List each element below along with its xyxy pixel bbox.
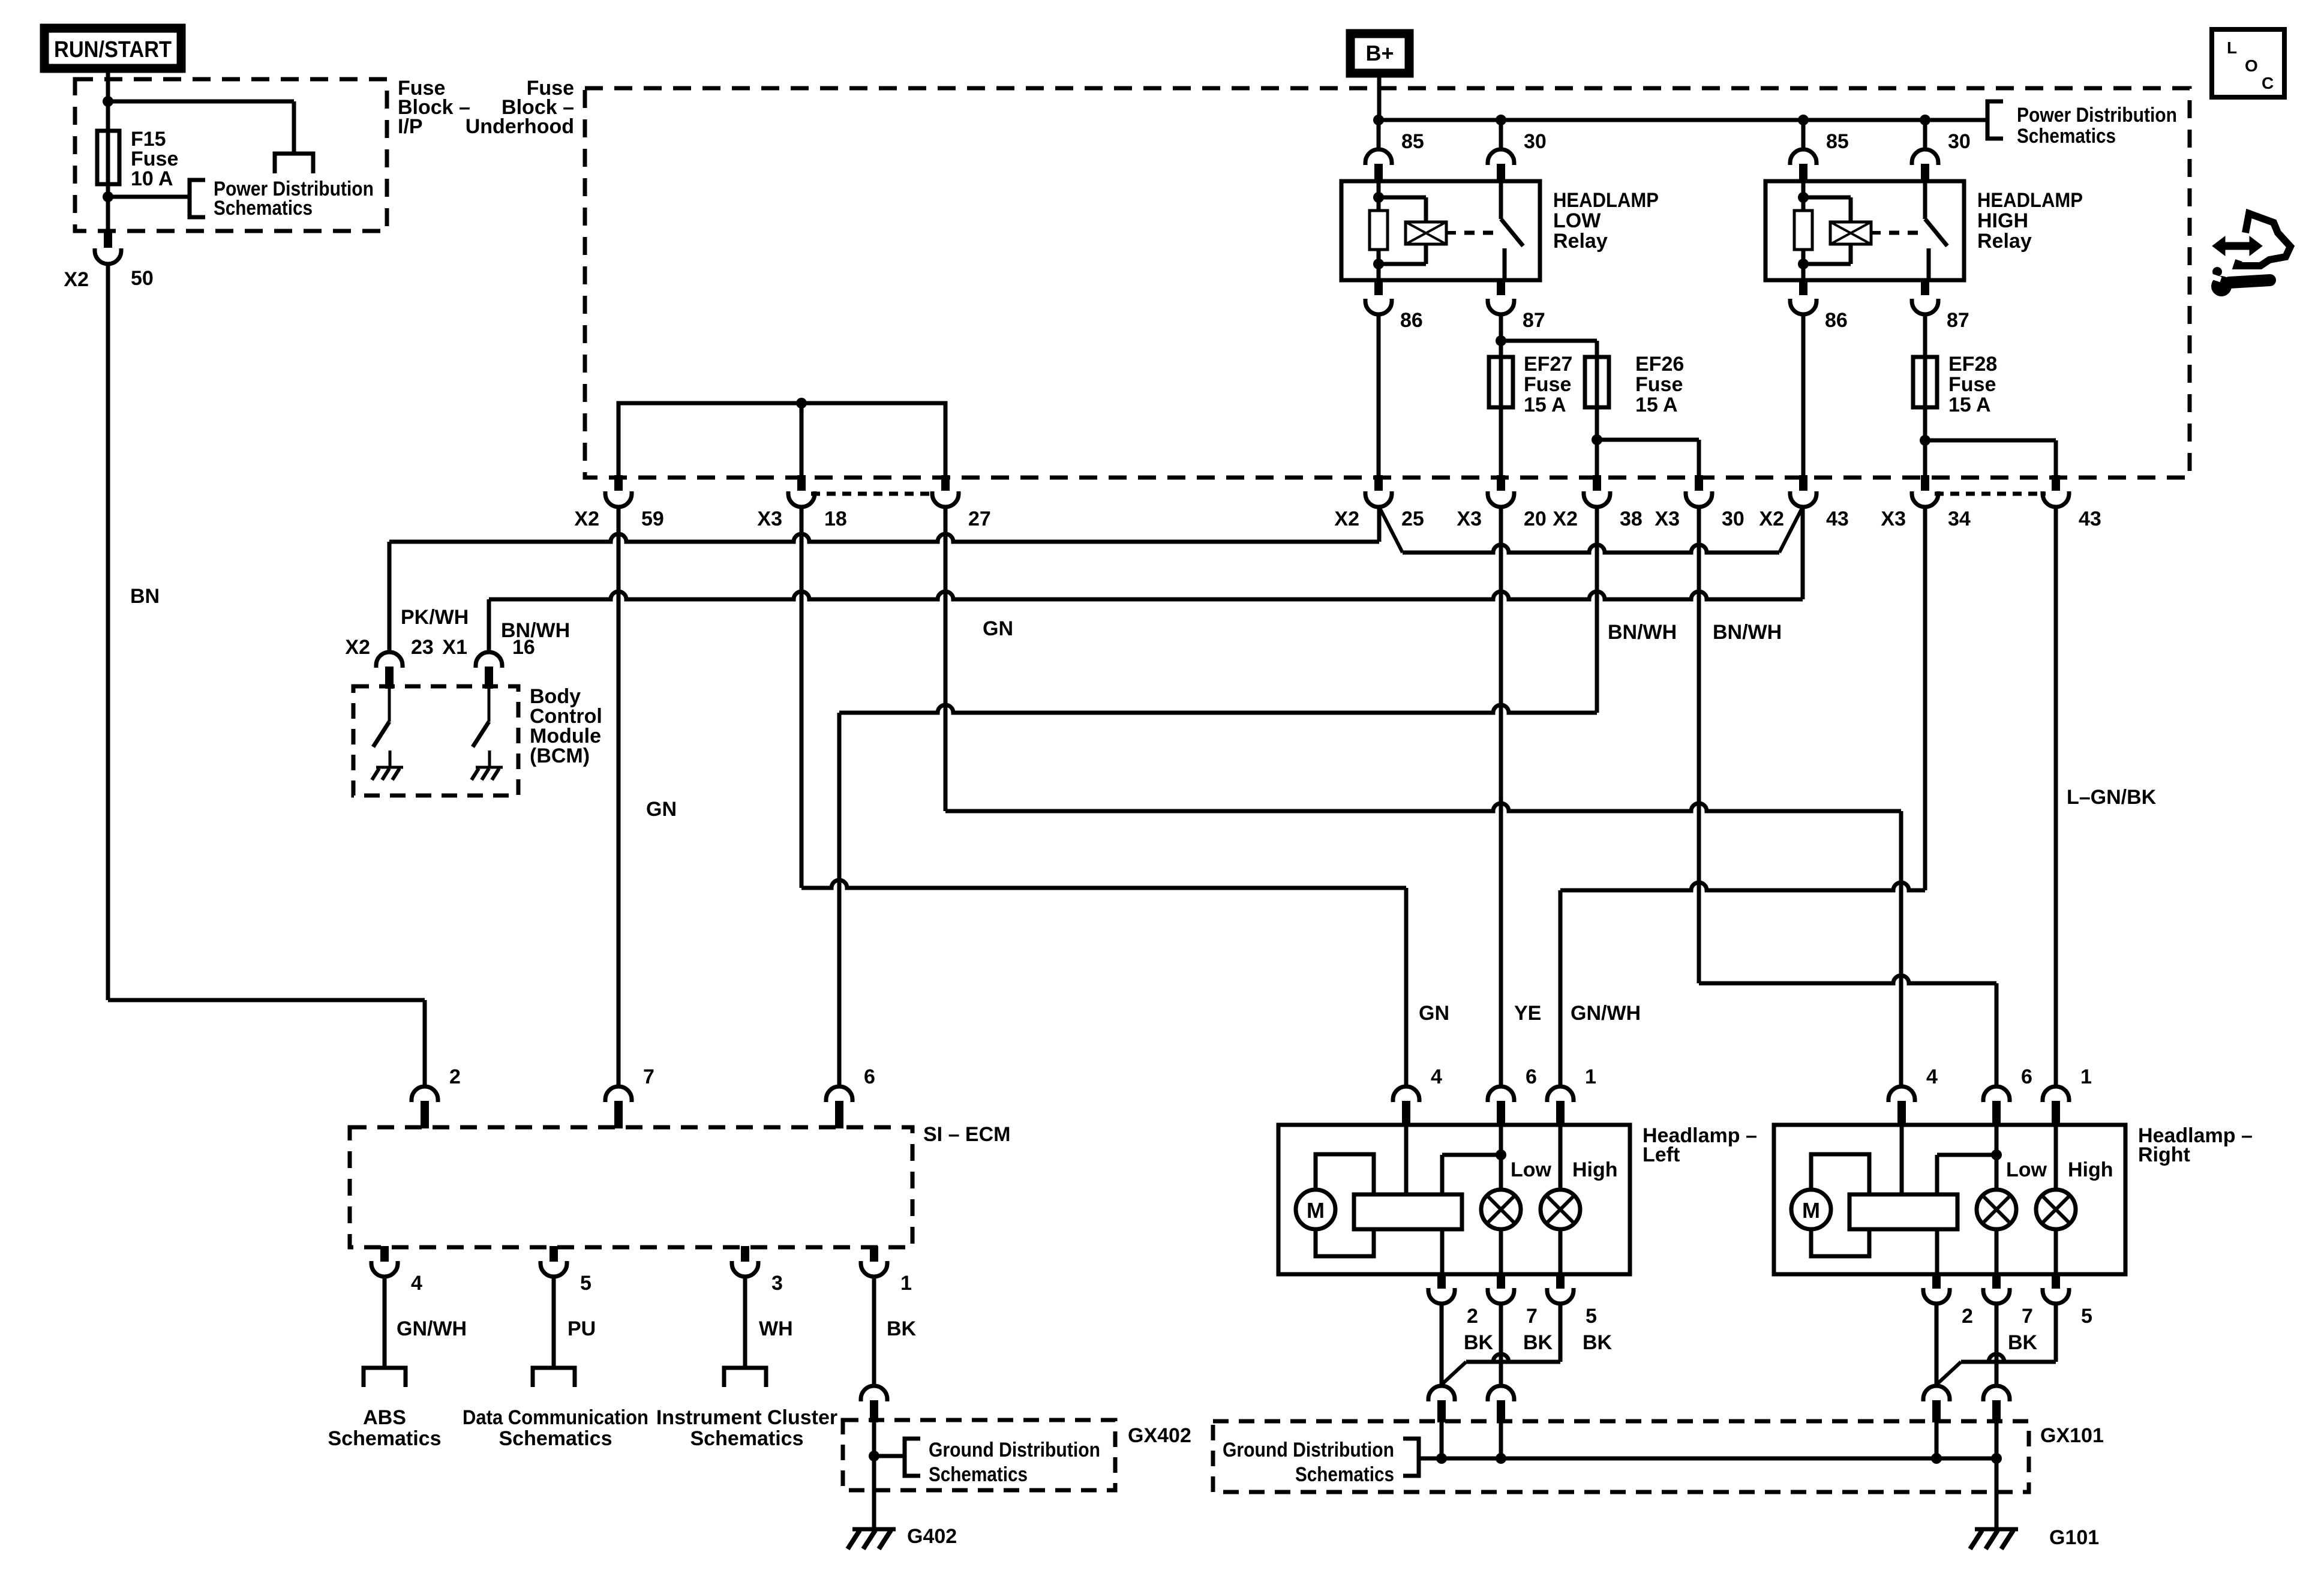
wire BN/WH BCM X1-16 to relay HIGH coil X2-43 bbox=[487, 599, 491, 653]
headlamp Left top pin 4 bbox=[1393, 1086, 1419, 1102]
BCM internal ground bbox=[376, 766, 403, 769]
svg-text:4: 4 bbox=[411, 1272, 422, 1295]
svg-text:Low: Low bbox=[2006, 1158, 2047, 1181]
svg-text:L–GN/BK: L–GN/BK bbox=[2067, 786, 2157, 809]
svg-text:RUN/START: RUN/START bbox=[54, 37, 172, 62]
headlamp Left bottom pin 2 bbox=[1437, 1273, 1446, 1289]
wire GN/WH to ABS bbox=[383, 1277, 387, 1368]
relay coil bbox=[1803, 196, 1851, 200]
svg-text:50: 50 bbox=[131, 267, 154, 290]
relay pin 30 connector bbox=[1499, 120, 1503, 149]
RUN/START power feed box bbox=[44, 28, 181, 68]
wire EF26 output bbox=[1595, 407, 1599, 478]
headlamp Right pin4 wire bbox=[1900, 1126, 1904, 1194]
service tools icon bbox=[2225, 242, 2251, 250]
headlamp Right bottom pin 5 bbox=[2052, 1273, 2060, 1289]
svg-text:GN: GN bbox=[646, 798, 677, 821]
connector X3 pin 20 bbox=[1497, 475, 1505, 491]
svg-text:YE: YE bbox=[1514, 1002, 1541, 1025]
wire RUN/START to F15 bbox=[106, 70, 110, 131]
svg-text:Ground Distribution: Ground Distribution bbox=[1223, 1439, 1394, 1461]
connector inline ground 2/5 bbox=[1923, 1386, 1950, 1401]
power distribution schematics bracket bbox=[190, 180, 205, 217]
svg-text:20: 20 bbox=[1524, 508, 1547, 530]
svg-text:Right: Right bbox=[2138, 1143, 2190, 1166]
ECM bottom pin 4 bbox=[380, 1246, 389, 1262]
svg-text:15 A: 15 A bbox=[1524, 394, 1566, 416]
ECM bottom pin 1 bbox=[870, 1246, 878, 1262]
headlamp Right leveling motor bbox=[1791, 1190, 1831, 1229]
svg-text:7: 7 bbox=[643, 1065, 654, 1088]
svg-text:WH: WH bbox=[759, 1317, 793, 1340]
connector inline ground 7 bbox=[1488, 1386, 1514, 1401]
relay coil-switch link bbox=[1446, 231, 1456, 235]
svg-text:B+: B+ bbox=[1365, 41, 1394, 65]
svg-text:Left: Left bbox=[1643, 1143, 1680, 1166]
svg-text:GN: GN bbox=[1419, 1002, 1449, 1025]
connector X3 pin 18 bbox=[797, 475, 806, 491]
svg-text:30: 30 bbox=[1722, 508, 1744, 530]
svg-text:PU: PU bbox=[568, 1317, 596, 1340]
B+ bus bbox=[1379, 118, 1987, 122]
svg-text:Ground Distribution: Ground Distribution bbox=[929, 1439, 1100, 1461]
wire coil jumper X2-25 to X2-43 bbox=[1379, 507, 1403, 553]
wire pin 2 ground bbox=[1440, 1304, 1444, 1386]
svg-text:87: 87 bbox=[1947, 309, 1969, 332]
wire branch to power distribution tap bbox=[108, 100, 294, 104]
svg-text:2: 2 bbox=[1962, 1305, 1973, 1328]
wire HIGH 87 to EF28 bbox=[1923, 314, 1927, 357]
headlamp Left leveling module bbox=[1354, 1194, 1462, 1229]
svg-text:7: 7 bbox=[2022, 1305, 2033, 1328]
headlamp Left high bulb bbox=[1559, 1126, 1563, 1190]
svg-text:O: O bbox=[2245, 56, 2258, 75]
svg-text:Schematics: Schematics bbox=[499, 1427, 612, 1450]
fuse block underhood dashed box bbox=[585, 88, 2190, 478]
connector X2 pin 59 bbox=[614, 475, 623, 491]
svg-text:30: 30 bbox=[1948, 130, 1971, 153]
headlamp Left low feed junction bbox=[1499, 1126, 1503, 1190]
svg-text:85: 85 bbox=[1401, 130, 1424, 153]
svg-text:86: 86 bbox=[1400, 309, 1423, 332]
wire YE X3-20 to headlamp left pin 6 bbox=[1499, 507, 1503, 1086]
power distribution schematics bracket right bbox=[1987, 101, 2003, 139]
node junction top bbox=[103, 96, 113, 107]
wire BK inside GX402 bbox=[872, 1422, 876, 1528]
wire to EF26 bbox=[1501, 339, 1597, 343]
svg-text:M: M bbox=[1307, 1198, 1325, 1223]
relay pin 87 connector bbox=[1497, 280, 1505, 295]
relay pin 30 connector bbox=[1923, 120, 1927, 149]
wire PK/WH BCM X2-23 to relay LOW coil X2-25 bbox=[388, 542, 392, 653]
svg-text:30: 30 bbox=[1524, 130, 1547, 153]
headlamp Left pin4 wire bbox=[1404, 1126, 1409, 1194]
connector inline ground 7 bbox=[1983, 1386, 2010, 1401]
svg-text:BN/WH: BN/WH bbox=[1608, 621, 1677, 644]
underhood internal bus bbox=[618, 403, 945, 476]
wire BN to ECM pin 2 bbox=[108, 998, 425, 1002]
fuse block I/P dashed box bbox=[75, 79, 387, 231]
svg-text:1: 1 bbox=[2080, 1065, 2092, 1088]
node GX402 junction bbox=[869, 1451, 879, 1461]
wire PU to data communication bbox=[552, 1277, 556, 1368]
relay coil-switch link bbox=[1871, 231, 1881, 235]
svg-text:G402: G402 bbox=[907, 1525, 957, 1548]
connector body dotted notch left bbox=[811, 492, 936, 496]
connector X2 pin 38 bbox=[1593, 475, 1601, 491]
relay switch bbox=[1499, 181, 1503, 219]
svg-text:Schematics: Schematics bbox=[690, 1427, 804, 1450]
svg-text:X2: X2 bbox=[1553, 508, 1578, 530]
svg-text:LOW: LOW bbox=[1553, 209, 1601, 232]
wire to power distribution schematics bbox=[108, 195, 190, 199]
connector inline ground 2/5 bbox=[1428, 1386, 1455, 1401]
svg-text:3: 3 bbox=[771, 1272, 783, 1295]
headlamp Right top pin 6 bbox=[1983, 1086, 2010, 1102]
data communication schematics tap bbox=[533, 1368, 575, 1387]
fuse EF26 bbox=[1585, 357, 1609, 407]
headlamp Left bottom pin 7 bbox=[1497, 1273, 1505, 1289]
svg-text:27: 27 bbox=[968, 508, 991, 530]
svg-text:High: High bbox=[1572, 1158, 1618, 1181]
svg-text:X3: X3 bbox=[1457, 508, 1482, 530]
connector X2 pin 25 bbox=[1374, 475, 1383, 491]
wire pin 7 ground bbox=[1499, 1304, 1503, 1386]
svg-text:Relay: Relay bbox=[1977, 230, 2032, 253]
svg-text:GN: GN bbox=[983, 617, 1013, 640]
ground splice GX402 dashed box bbox=[843, 1420, 1115, 1490]
wire GN pin 27 down bbox=[944, 507, 948, 811]
svg-text:Underhood: Underhood bbox=[466, 115, 574, 138]
svg-text:HEADLAMP: HEADLAMP bbox=[1977, 189, 2083, 212]
svg-text:I/P: I/P bbox=[398, 115, 423, 138]
svg-text:7: 7 bbox=[1526, 1305, 1538, 1328]
svg-text:SI – ECM: SI – ECM bbox=[923, 1123, 1010, 1146]
svg-text:HIGH: HIGH bbox=[1977, 209, 2028, 232]
headlamp Left leveling motor bbox=[1296, 1190, 1335, 1229]
ground G402 bbox=[852, 1527, 896, 1532]
svg-text:Schematics: Schematics bbox=[1295, 1463, 1394, 1486]
connector pin 27 bbox=[941, 475, 950, 491]
BCM driver switch 23 bbox=[388, 689, 391, 722]
BCM connector X2 pin 23 bbox=[376, 652, 403, 668]
wire WH to instrument cluster bbox=[743, 1277, 747, 1368]
relay coil resistor bbox=[1794, 211, 1812, 250]
connector X3 pin 34 bbox=[1921, 475, 1929, 491]
relay pin 87 connector bbox=[1921, 280, 1929, 295]
svg-text:59: 59 bbox=[641, 508, 664, 530]
node EF26 feed junction bbox=[1496, 335, 1506, 346]
wire GN/WH X3-34 to headlamp left pin 1 bbox=[1923, 507, 1927, 890]
BCM driver switch 16 bbox=[488, 689, 491, 722]
svg-text:23: 23 bbox=[411, 636, 434, 659]
svg-text:X3: X3 bbox=[1881, 508, 1906, 530]
ECM bottom pin 5 bbox=[550, 1246, 558, 1262]
connector body dotted notch right bbox=[1935, 492, 2046, 496]
svg-text:ABS: ABS bbox=[363, 1406, 406, 1429]
power distribution tap symbol bbox=[275, 154, 313, 173]
svg-text:5: 5 bbox=[2081, 1305, 2092, 1328]
wire EF28 to pin 43 bbox=[1925, 439, 2056, 443]
headlamp Right low bulb bbox=[1977, 1190, 2016, 1229]
relay box LOW bbox=[1341, 181, 1540, 280]
fuse EF28 bbox=[1913, 357, 1937, 407]
svg-text:10 A: 10 A bbox=[131, 167, 173, 190]
svg-text:EF27: EF27 bbox=[1524, 353, 1572, 376]
ECM top pin 2 bbox=[412, 1086, 438, 1102]
svg-text:6: 6 bbox=[864, 1065, 875, 1088]
svg-text:4: 4 bbox=[1926, 1065, 1938, 1088]
svg-text:High: High bbox=[2068, 1158, 2113, 1181]
wire BN/WH X3-30 to headlamp right pin 6 bbox=[1697, 507, 1701, 983]
headlamp Right bottom pin 2 bbox=[1932, 1273, 1941, 1289]
svg-text:5: 5 bbox=[1586, 1305, 1597, 1328]
headlamp Right top pin 1 bbox=[2043, 1086, 2069, 1102]
svg-text:BN: BN bbox=[130, 585, 160, 608]
svg-text:15 A: 15 A bbox=[1948, 394, 1991, 416]
B+ power feed box bbox=[1350, 34, 1409, 73]
wire GN X3-18 to headlamp left pin 4 bbox=[801, 880, 1406, 888]
relay switch bbox=[1923, 181, 1927, 219]
svg-text:38: 38 bbox=[1620, 508, 1643, 530]
wire GN X2-59 to ECM pin 7 bbox=[617, 507, 621, 1086]
ECM bottom pin 3 bbox=[741, 1246, 749, 1262]
wire BN/WH X2-38 to ECM pin 6 bbox=[1595, 507, 1599, 713]
svg-text:Schematics: Schematics bbox=[929, 1463, 1028, 1486]
relay pin 86 connector bbox=[1374, 280, 1383, 295]
fuse F15 bbox=[97, 131, 119, 184]
svg-text:L: L bbox=[2227, 38, 2237, 57]
svg-text:43: 43 bbox=[2079, 508, 2101, 530]
headlamp Right high bulb bbox=[2054, 1126, 2058, 1190]
svg-text:Fuse: Fuse bbox=[1635, 373, 1683, 396]
wire pin 7 ground bbox=[1995, 1304, 1999, 1386]
ground distribution schematics bracket bbox=[874, 1454, 905, 1458]
svg-text:X2: X2 bbox=[574, 508, 599, 530]
svg-text:BK: BK bbox=[2008, 1331, 2038, 1354]
wire BK to GX402 bbox=[872, 1277, 876, 1386]
wire LOW 86 to X2-25 bbox=[1377, 314, 1381, 478]
connector X3 pin 30 bbox=[1695, 475, 1703, 491]
node EF28 output junction bbox=[1920, 435, 1930, 446]
instrument cluster schematics tap bbox=[724, 1368, 766, 1387]
wire pin 5 ground jog bbox=[2054, 1304, 2058, 1362]
svg-text:M: M bbox=[1802, 1198, 1820, 1223]
svg-text:X2: X2 bbox=[64, 268, 89, 291]
svg-text:X2: X2 bbox=[1334, 508, 1359, 530]
svg-text:Relay: Relay bbox=[1553, 230, 1608, 253]
node EF26 output junction bbox=[1592, 434, 1602, 445]
wire BN down-left bbox=[106, 264, 110, 1000]
svg-text:18: 18 bbox=[824, 508, 847, 530]
svg-text:85: 85 bbox=[1826, 130, 1849, 153]
headlamp Left top pin 1 bbox=[1547, 1086, 1574, 1102]
relay pin 85 connector bbox=[1801, 120, 1806, 149]
headlamp Right leveling module bbox=[1849, 1194, 1957, 1229]
LOC reference box bbox=[2212, 29, 2284, 97]
fuse EF27 bbox=[1489, 357, 1513, 407]
svg-text:BK: BK bbox=[1464, 1331, 1494, 1354]
wire B+ to bus bbox=[1377, 77, 1382, 120]
ABS schematics tap bbox=[364, 1368, 406, 1387]
ground G101 bbox=[1975, 1527, 2018, 1532]
svg-text:6: 6 bbox=[1526, 1065, 1537, 1088]
ECM top pin 6 bbox=[826, 1086, 852, 1102]
headlamp Right low feed junction bbox=[1995, 1126, 1999, 1190]
wire EF27 to X3-20 bbox=[1499, 407, 1503, 478]
wire GN X3-18 down bbox=[800, 507, 804, 888]
svg-text:EF26: EF26 bbox=[1635, 353, 1684, 376]
headlamp Right box bbox=[1774, 1125, 2125, 1274]
svg-text:25: 25 bbox=[1401, 508, 1424, 530]
GX101 ground bus bbox=[1419, 1457, 1996, 1461]
svg-text:Schematics: Schematics bbox=[214, 197, 313, 220]
svg-text:34: 34 bbox=[1948, 508, 1971, 530]
connector X2 pin 43 bbox=[1799, 475, 1807, 491]
svg-text:GX101: GX101 bbox=[2040, 1424, 2104, 1447]
ECM dashed box bbox=[350, 1127, 912, 1247]
svg-text:(BCM): (BCM) bbox=[530, 745, 590, 767]
BCM dashed box bbox=[353, 686, 518, 795]
svg-text:Power Distribution: Power Distribution bbox=[2017, 104, 2177, 127]
wire GN pin 27 to headlamp right pin 4 bbox=[945, 803, 1901, 811]
svg-text:87: 87 bbox=[1523, 309, 1545, 332]
svg-text:Schematics: Schematics bbox=[2017, 125, 2116, 148]
BCM internal ground bbox=[476, 766, 503, 769]
svg-text:BK: BK bbox=[887, 1317, 917, 1340]
headlamp Right bottom pin 7 bbox=[1992, 1273, 2001, 1289]
wire pin 2 ground bbox=[1935, 1304, 1939, 1386]
svg-text:2: 2 bbox=[449, 1065, 461, 1088]
wire HIGH 86 to X2-43 bbox=[1801, 314, 1806, 478]
svg-text:HEADLAMP: HEADLAMP bbox=[1553, 189, 1659, 212]
wire EF28 output bbox=[1923, 407, 1927, 478]
svg-text:X3: X3 bbox=[757, 508, 782, 530]
svg-text:X3: X3 bbox=[1655, 508, 1680, 530]
svg-text:Instrument Cluster: Instrument Cluster bbox=[656, 1406, 837, 1429]
svg-text:15 A: 15 A bbox=[1635, 394, 1678, 416]
wire LOW 87 to EF27 bbox=[1499, 314, 1503, 357]
relay coil resistor bbox=[1370, 211, 1388, 250]
svg-text:BN/WH: BN/WH bbox=[1713, 621, 1782, 644]
svg-text:16: 16 bbox=[512, 636, 535, 659]
svg-text:43: 43 bbox=[1826, 508, 1849, 530]
connector pin 43 bbox=[2052, 475, 2060, 491]
svg-text:Fuse: Fuse bbox=[1524, 373, 1571, 396]
svg-text:Low: Low bbox=[1511, 1158, 1552, 1181]
wire pin 5 ground jog bbox=[1559, 1304, 1563, 1362]
svg-text:2: 2 bbox=[1467, 1305, 1478, 1328]
BCM connector X1 pin 16 bbox=[476, 652, 502, 668]
svg-text:Fuse: Fuse bbox=[1948, 373, 1996, 396]
headlamp Left top pin 6 bbox=[1488, 1086, 1514, 1102]
relay pin 86 connector bbox=[1799, 280, 1807, 295]
ground splice GX101 dashed box bbox=[1213, 1421, 2029, 1492]
svg-text:C: C bbox=[2262, 74, 2274, 92]
node junction below F15 bbox=[103, 191, 113, 202]
headlamp Left box bbox=[1278, 1125, 1630, 1274]
wire to G101 bbox=[1995, 1458, 1999, 1528]
relay box HIGH bbox=[1765, 181, 1964, 280]
relay coil bbox=[1379, 196, 1426, 200]
svg-text:X1: X1 bbox=[442, 636, 467, 659]
svg-text:BK: BK bbox=[1523, 1331, 1553, 1354]
svg-text:EF28: EF28 bbox=[1948, 353, 1997, 376]
wire F15 to X2-50 bbox=[106, 184, 110, 233]
svg-text:BK: BK bbox=[1583, 1331, 1613, 1354]
headlamp Right top pin 4 bbox=[1888, 1086, 1915, 1102]
svg-text:5: 5 bbox=[580, 1272, 591, 1295]
svg-text:GN/WH: GN/WH bbox=[397, 1317, 467, 1340]
relay pin 85 connector bbox=[1377, 120, 1381, 149]
connector X2 pin 50 bbox=[104, 232, 112, 248]
svg-text:GX402: GX402 bbox=[1128, 1424, 1191, 1447]
headlamp Left low bulb bbox=[1481, 1190, 1521, 1229]
svg-text:GN/WH: GN/WH bbox=[1571, 1002, 1641, 1025]
svg-text:86: 86 bbox=[1825, 309, 1848, 332]
headlamp Left bottom pin 5 bbox=[1556, 1273, 1565, 1289]
svg-text:Schematics: Schematics bbox=[328, 1427, 442, 1450]
svg-text:4: 4 bbox=[1431, 1065, 1442, 1088]
wire L-GN/BK pin 43 to headlamp right pin 1 bbox=[2054, 507, 2058, 1086]
svg-text:6: 6 bbox=[2021, 1065, 2032, 1088]
svg-text:PK/WH: PK/WH bbox=[401, 606, 469, 629]
svg-text:BN/WH: BN/WH bbox=[501, 619, 570, 642]
svg-text:1: 1 bbox=[900, 1272, 912, 1295]
connector inline BK bbox=[861, 1386, 887, 1401]
svg-text:1: 1 bbox=[1585, 1065, 1596, 1088]
svg-text:Data Communication: Data Communication bbox=[463, 1406, 648, 1429]
svg-text:X2: X2 bbox=[1759, 508, 1784, 530]
svg-text:G101: G101 bbox=[2049, 1526, 2099, 1549]
svg-text:X2: X2 bbox=[345, 636, 370, 659]
wire EF26 to X3-30 bbox=[1597, 438, 1699, 442]
ECM top pin 7 bbox=[605, 1086, 632, 1102]
